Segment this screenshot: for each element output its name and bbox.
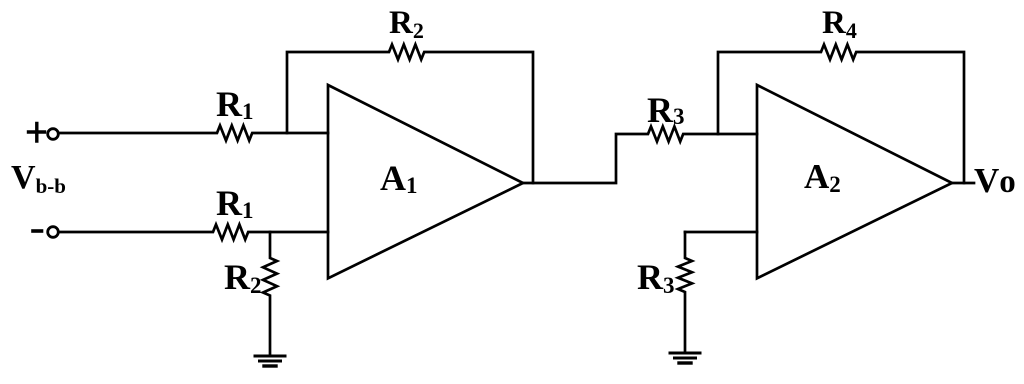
svg-text:Vo: Vo	[974, 161, 1016, 200]
